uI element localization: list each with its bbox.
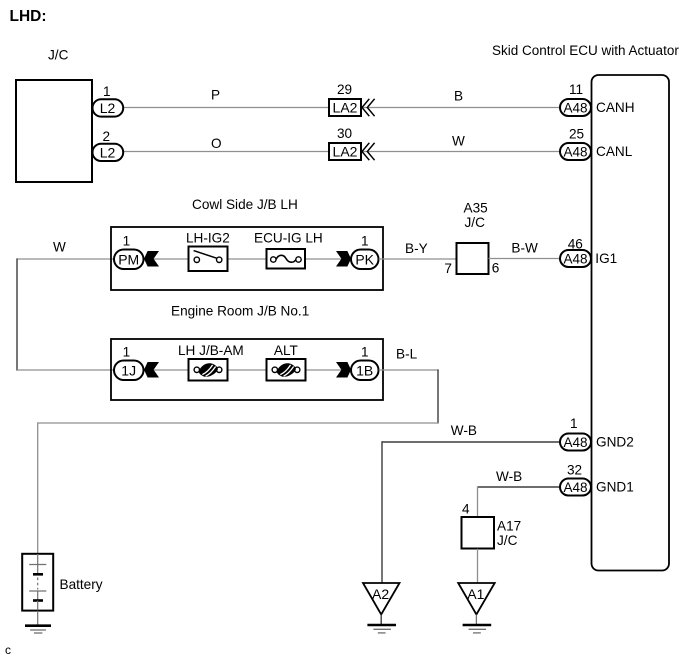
svg-text:Cowl Side J/B LH: Cowl Side J/B LH <box>192 197 298 212</box>
mating arrow (left) after 1J <box>144 362 159 378</box>
Engine Room J/B box <box>111 339 383 400</box>
Skid Control ECU box <box>592 75 670 571</box>
svg-text:P: P <box>211 88 220 103</box>
connector PM pin 1 <box>114 250 144 270</box>
ground point A1 <box>458 583 495 633</box>
svg-text:O: O <box>211 136 222 151</box>
wire B-L from 1B <box>379 369 439 371</box>
wire battery riser vertical <box>37 422 39 553</box>
wire A17 to A1 <box>477 549 479 583</box>
svg-text:46: 46 <box>568 237 583 252</box>
connector L2 pin 2 <box>93 144 124 161</box>
ground point A2 <box>363 583 400 633</box>
svg-text:Engine Room J/B No.1: Engine Room J/B No.1 <box>171 303 309 318</box>
connector 1B pin 1 <box>351 361 379 381</box>
svg-text:IG1: IG1 <box>595 251 617 266</box>
svg-text:CANL: CANL <box>596 144 633 159</box>
battery internals <box>29 554 46 610</box>
svg-text:L2: L2 <box>100 100 116 116</box>
svg-text:Skid Control ECU with Actuator: Skid Control ECU with Actuator <box>492 43 679 58</box>
svg-text:L2: L2 <box>100 144 116 160</box>
internal wire engine <box>143 369 353 371</box>
svg-text:1B: 1B <box>356 362 373 378</box>
svg-text:A48: A48 <box>563 101 587 116</box>
mating arrow (left) after PM <box>144 251 159 267</box>
wire left riser vertical <box>16 258 18 370</box>
svg-text:32: 32 <box>567 463 582 478</box>
svg-text:B-L: B-L <box>396 347 418 362</box>
chevron splice arrows row 2 <box>362 143 369 160</box>
wire W (LA2-30 to A48-25) <box>361 151 560 153</box>
svg-text:Battery: Battery <box>60 577 103 592</box>
svg-text:J/C: J/C <box>497 533 518 548</box>
svg-text:W: W <box>53 240 66 255</box>
wire O (L2-2 to LA2-30) <box>123 151 329 153</box>
wire B-W (A35 to A48-46) <box>489 258 561 260</box>
ground (battery) <box>25 626 51 633</box>
svg-text:A1: A1 <box>467 586 484 602</box>
wire left riser to 1J <box>17 369 114 371</box>
svg-text:6: 6 <box>492 261 500 276</box>
svg-text:29: 29 <box>337 82 352 97</box>
svg-text:W-B: W-B <box>451 423 477 438</box>
battery <box>22 554 53 611</box>
svg-text:1: 1 <box>361 345 369 360</box>
wire P (L2-1 to LA2-29) <box>123 107 329 109</box>
chevron splice arrows row 1 <box>362 99 369 116</box>
svg-text:GND1: GND1 <box>596 480 634 495</box>
wire B (LA2-29 to A48-11) <box>361 107 560 109</box>
connector PK pin 1 <box>351 250 379 270</box>
svg-text:1J: 1J <box>121 362 136 378</box>
svg-text:1: 1 <box>103 84 111 99</box>
connector A48 pin 1 GND2 <box>560 434 591 451</box>
svg-text:B-W: B-W <box>511 241 538 256</box>
internal wire cowl <box>143 258 353 260</box>
mating arrow (right) before 1B <box>336 362 351 378</box>
wire battery feed horizontal <box>38 422 439 424</box>
Cowl Side J/B box <box>111 227 383 290</box>
svg-text:1: 1 <box>570 416 578 431</box>
svg-text:B: B <box>454 89 463 104</box>
svg-text:PK: PK <box>355 251 374 267</box>
svg-text:J/C: J/C <box>465 215 486 230</box>
wire GND2 vertical to A2 <box>381 441 383 583</box>
svg-text:A17: A17 <box>497 519 521 534</box>
svg-text:7: 7 <box>444 261 452 276</box>
svg-text:1: 1 <box>123 234 131 249</box>
svg-text:2: 2 <box>103 129 111 144</box>
wire B-Y (PK to A35) <box>379 258 456 260</box>
connector A48 pin 11 CANH <box>560 99 591 116</box>
connector A48 pin 46 IG1 <box>560 250 591 267</box>
svg-text:LH J/B-AM: LH J/B-AM <box>178 343 244 358</box>
svg-text:LA2: LA2 <box>333 144 358 160</box>
svg-text:B-Y: B-Y <box>405 241 428 256</box>
connector LA2 pin 29 <box>329 99 361 116</box>
svg-text:4: 4 <box>462 502 470 517</box>
wire GND1 vertical to A17 <box>477 486 479 517</box>
svg-text:A48: A48 <box>563 435 587 450</box>
svg-text:LA2: LA2 <box>333 100 358 116</box>
svg-text:A48: A48 <box>563 480 587 495</box>
svg-text:1: 1 <box>361 234 369 249</box>
svg-text:ECU-IG LH: ECU-IG LH <box>254 231 323 246</box>
svg-text:A48: A48 <box>563 145 587 160</box>
svg-text:J/C: J/C <box>48 48 69 63</box>
connector 1J pin 1 <box>114 361 144 381</box>
svg-text:W: W <box>452 134 465 149</box>
svg-text:c: c <box>5 643 11 657</box>
svg-text:30: 30 <box>337 126 353 141</box>
svg-text:PM: PM <box>118 251 139 267</box>
junction connector J/C box <box>16 80 92 182</box>
svg-text:25: 25 <box>569 127 584 142</box>
svg-text:ALT: ALT <box>274 343 298 358</box>
connector A48 pin 25 CANL <box>560 143 591 160</box>
svg-text:LHD:: LHD: <box>10 8 47 25</box>
wire W from left riser to PM <box>17 258 114 260</box>
wire B-L vertical drop <box>437 369 439 423</box>
connector L2 pin 1 <box>93 99 124 116</box>
svg-text:A48: A48 <box>563 252 587 267</box>
wire W-B to GND1 <box>478 486 561 488</box>
svg-text:LH-IG2: LH-IG2 <box>186 231 230 246</box>
svg-text:W-B: W-B <box>496 469 522 484</box>
svg-text:1: 1 <box>123 345 131 360</box>
svg-text:CANH: CANH <box>596 100 635 115</box>
connector A48 pin 32 GND1 <box>560 479 591 496</box>
wire battery to ground <box>37 611 39 625</box>
connector LA2 pin 30 <box>329 143 361 160</box>
svg-text:GND2: GND2 <box>596 435 634 450</box>
wire W-B to GND2 <box>382 441 560 443</box>
svg-text:A2: A2 <box>372 586 389 602</box>
mating arrow (right) before PK <box>336 251 351 267</box>
svg-text:11: 11 <box>569 82 583 97</box>
svg-text:A35: A35 <box>464 201 488 216</box>
